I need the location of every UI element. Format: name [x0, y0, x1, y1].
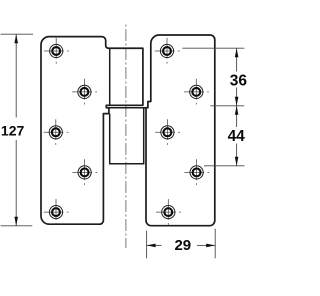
svg-text:44: 44 — [228, 128, 246, 145]
svg-text:29: 29 — [174, 237, 191, 254]
svg-text:36: 36 — [230, 72, 247, 89]
svg-text:127: 127 — [1, 122, 25, 138]
